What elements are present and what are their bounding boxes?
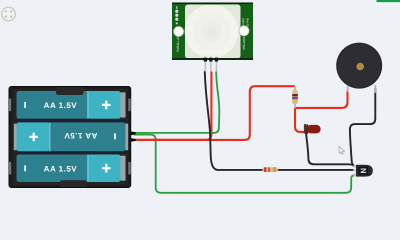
battery cell 1 (AA 1.5V) [17,91,126,119]
green toolbar fragment top-right [377,0,400,4]
battery pack BAT1 (3x AA holder) [9,87,131,188]
resistor R2 (vertical, near buzzer) [292,86,298,108]
PIR pin labels [204,56,218,57]
wire battery minus to PIR GND (green) [134,72,220,133]
buzzer PIEZO1 [336,43,382,93]
wire resistor R2 bottom to LED anode (red) [295,108,305,132]
PIR mounting hole right [239,26,249,36]
PIR mounting hole left [174,27,184,37]
svg-text:AA 1.5V: AA 1.5V [44,165,78,174]
PIR pin pads and pins [204,58,218,72]
wire battery minus to transistor emitter (green) [134,135,355,193]
svg-text:555-28027: 555-28027 [242,35,246,50]
PIR sensor module (Parallax 555-28027) [172,3,253,61]
PIR dome lens [172,3,253,61]
resistor R1 (horizontal, to transistor base) [262,167,278,172]
svg-text:AA 1.5V: AA 1.5V [64,131,98,140]
PIR header pins top-left [175,6,178,24]
battery case separators and notches [12,87,129,187]
battery cell 2 (AA 1.5V, flipped) [14,122,128,151]
wire PIR OUT to transistor base through R1 (black) [205,71,355,170]
wire battery plus to PIR VCC (red) [134,72,212,140]
wire resistor R2 bottom to buzzer plus (red) [295,91,348,108]
battery cell 3 (AA 1.5V) [17,154,126,182]
svg-text:AA 1.5V: AA 1.5V [44,101,78,110]
svg-text:PIR Sensor: PIR Sensor [241,18,245,34]
partial component circle top-left [2,7,16,21]
svg-text:Rev B: Rev B [246,18,250,26]
transistor Q1 (NPN) [353,165,373,177]
svg-text:PARALLAX: PARALLAX [176,35,180,52]
wire buzzer minus to transistor collector (black) [350,88,375,167]
wire battery plus to resistor R2 top (red) [134,86,295,140]
wire LED cathode to transistor collector (black) [305,124,355,167]
LED D1 (red) [304,124,321,134]
mouse cursor [339,146,345,154]
battery terminal stubs [131,131,136,141]
